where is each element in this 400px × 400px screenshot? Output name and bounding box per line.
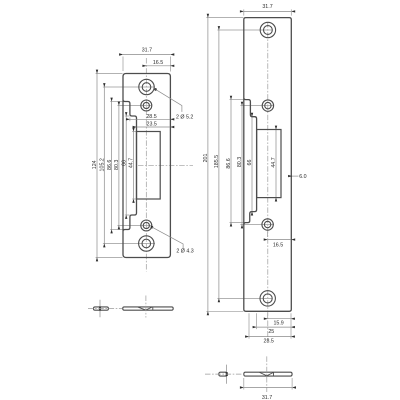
- svg-text:44.7: 44.7: [129, 158, 135, 168]
- side view left figure: thickness arrows: [99, 300, 101, 307]
- svg-text:185.5: 185.5: [214, 155, 220, 168]
- dimension line 80.3: [118, 106, 120, 226]
- dimension 15.9 bottom right figure: [268, 318, 291, 320]
- side view right figure: main bar: [244, 372, 292, 376]
- wire: extension line bottom edge left (124): [96, 257, 123, 259]
- screw hole lower small (o4.3): [141, 220, 152, 231]
- dimension line 201: [207, 18, 209, 312]
- dimension 31.7 top right figure: [244, 10, 291, 12]
- svg-text:31.7: 31.7: [262, 395, 272, 400]
- side view right figure: horizontal centerline: [205, 373, 243, 375]
- dimension line 80.3 right: [241, 106, 243, 225]
- extension lines bottom dims right figure: [290, 313, 292, 338]
- wire: extension bottom step1 (86.6): [110, 229, 122, 231]
- wire: extension top step2 (66): [125, 115, 130, 117]
- plate outline left figure: [123, 74, 170, 258]
- svg-text:2 Ø 4.3: 2 Ø 4.3: [176, 248, 193, 254]
- wire: extension top step1 (86.6): [230, 99, 244, 101]
- dimension line 66: [125, 116, 127, 215]
- screw hole upper small (right figure): [262, 100, 273, 111]
- svg-text:31.7: 31.7: [142, 48, 152, 54]
- latch opening rectangle right figure: [257, 130, 281, 198]
- svg-text:66: 66: [247, 160, 253, 166]
- side view left figure: main bar: [123, 307, 174, 310]
- svg-text:23.5: 23.5: [147, 122, 157, 128]
- side view right figure: lip piece: [219, 372, 228, 376]
- dimension 28.5 left figure: [130, 118, 171, 120]
- svg-text:201: 201: [203, 154, 209, 163]
- wire: extension top small hole centerline (80.3): [118, 105, 153, 107]
- wire: extension bottom step2 (66): [125, 214, 130, 216]
- wire: extension bottom outer step (86.6): [230, 222, 249, 224]
- side view left figure: lip profile notch: [138, 307, 153, 310]
- dimension 16.5 right figure: [268, 239, 292, 241]
- wire: extension upper small hole centerline (80.3): [240, 105, 274, 107]
- plate outline right figure: [244, 18, 291, 312]
- svg-text:28.5: 28.5: [146, 114, 156, 120]
- svg-text:80.3: 80.3: [114, 160, 120, 170]
- svg-text:31.7: 31.7: [262, 4, 272, 10]
- label 6.0 leader arrow: [292, 175, 298, 177]
- wire: extension top edge left (201): [206, 17, 243, 19]
- dimension line 86.6: [111, 102, 113, 230]
- svg-text:44.7: 44.7: [271, 157, 277, 167]
- side view right figure: lip profile notch: [260, 372, 274, 376]
- svg-text:6.0: 6.0: [299, 174, 306, 180]
- wire: extension rect top (44.7): [132, 131, 136, 133]
- wire: extension top hole centerline (185.5): [217, 29, 272, 31]
- screw hole lower small (right figure): [262, 219, 273, 230]
- svg-text:80.3: 80.3: [237, 157, 243, 167]
- screw hole upper small (o4.3): [141, 100, 152, 111]
- vertical centerline left figure: [145, 58, 147, 272]
- dimension 28.5 bottom right figure: [249, 336, 291, 338]
- wire: extension bottom hole centerline (185.5): [217, 297, 272, 299]
- side view left figure: vertical centerline: [145, 296, 147, 318]
- latch opening rectangle left figure: [137, 132, 161, 200]
- dimension 31.7 bottom right figure: [244, 387, 292, 389]
- side view left figure: horizontal centerline: [88, 308, 122, 310]
- vertical centerline right figure: [267, 22, 269, 341]
- wire: extension line top edge left (124): [96, 73, 123, 75]
- screw hole bottom large (o5.2): [139, 236, 154, 251]
- side view left figure: lip piece: [94, 307, 109, 310]
- dimension 25 bottom right figure: [257, 326, 292, 328]
- side view right figure: vertical centerline: [266, 356, 268, 392]
- wire: extension bottom edge left (201): [206, 310, 243, 312]
- dimension 16.5 top left figure: [146, 65, 170, 67]
- svg-text:124: 124: [92, 160, 98, 169]
- dimension line 185.5: [218, 30, 220, 298]
- dimension line 44.7: [133, 132, 135, 200]
- wire: extension bottom large hole centerline (105.2): [103, 243, 155, 245]
- svg-text:86.6: 86.6: [107, 160, 113, 170]
- wire: extension top step1 (86.6): [110, 101, 122, 103]
- horizontal centerline left figure: [138, 164, 193, 166]
- svg-text:2 Ø 5.2: 2 Ø 5.2: [176, 114, 193, 120]
- dimension line 105.2: [103, 87, 105, 244]
- svg-text:66: 66: [121, 160, 127, 166]
- side view right figure: thickness arrows: [226, 365, 228, 373]
- svg-text:15.9: 15.9: [273, 321, 283, 327]
- wire: extension bottom small hole centerline (80.3): [118, 225, 153, 227]
- screw hole bottom (right figure): [260, 291, 275, 306]
- dimension line 124: [96, 74, 98, 258]
- screw hole top (right figure): [260, 22, 275, 37]
- label 2 o 4.3 with leader: [151, 226, 154, 229]
- svg-text:86.6: 86.6: [226, 158, 232, 168]
- dimension line 44.7 right: [275, 130, 277, 198]
- svg-text:16.5: 16.5: [273, 242, 283, 248]
- svg-text:16.5: 16.5: [153, 60, 163, 66]
- svg-text:105.2: 105.2: [100, 158, 106, 171]
- dimension 31.7 top left figure: [123, 54, 170, 56]
- wire: extension lower small hole centerline (80.3): [240, 224, 274, 226]
- wire: extension rect bottom (44.7): [132, 198, 136, 200]
- dimension line 86.6 right: [230, 100, 232, 223]
- svg-text:28.5: 28.5: [264, 338, 274, 344]
- label 2 o 5.2 with leader: [154, 88, 157, 91]
- wire: extension top large hole centerline (105.2): [103, 86, 155, 88]
- dimension 23.5 left figure: [137, 126, 171, 128]
- screw hole top large (o5.2): [139, 79, 154, 94]
- svg-text:25: 25: [268, 329, 274, 335]
- dimension line 66 right: [251, 117, 253, 212]
